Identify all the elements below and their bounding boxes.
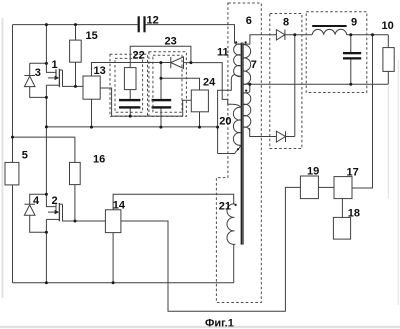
diode D23	[171, 57, 184, 68]
capacitor C22a	[119, 99, 140, 109]
svg-text:22: 22	[133, 49, 145, 61]
wire R16 bottom	[74, 185, 76, 221]
block U18	[333, 217, 350, 239]
svg-text:10: 10	[382, 20, 394, 32]
resistor 5	[5, 162, 19, 185]
wire top rail left of C12	[13, 24, 138, 26]
wire mid bus	[46, 126, 217, 128]
winding 11	[234, 25, 241, 77]
svg-text:19: 19	[307, 165, 319, 177]
wire winding 7 bottom to D8b	[250, 128, 277, 137]
wire C23 stem and branch	[160, 63, 162, 128]
wire D4 anode to source Q2	[30, 216, 47, 233]
wire C23 node to U24 top	[161, 78, 200, 90]
diode D4	[24, 204, 35, 215]
dashed box 22 inner	[115, 58, 143, 112]
wire U13 right to U24 via lower route	[100, 88, 191, 116]
svg-text:16: 16	[93, 154, 105, 166]
winding 7 lower	[243, 93, 251, 131]
svg-text:14: 14	[113, 200, 126, 212]
inductor L9 core bar	[312, 25, 346, 27]
wire rail to R5 R16 branch	[13, 137, 75, 162]
wire source line of Q1 down to mid bus	[45, 85, 47, 127]
wire C9 stems	[350, 35, 352, 84]
wire gate line of Q2 from mid bus	[46, 127, 55, 207]
winding 7 upper	[243, 44, 250, 84]
wire gate line of Q1 from top rail	[46, 25, 55, 73]
wire source Q2 to bottom bus	[45, 219, 47, 282]
phase dots	[235, 41, 248, 206]
wire U17 to U18	[341, 199, 343, 218]
resistor 10	[383, 48, 394, 72]
wire center tap return	[243, 83, 388, 85]
wire winding 11 bottom junction	[218, 74, 235, 153]
resistor 16	[70, 162, 81, 184]
svg-text:1: 1	[52, 59, 58, 71]
svg-text:5: 5	[22, 150, 28, 162]
wire top rail right of C12	[146, 25, 235, 43]
svg-text:4: 4	[33, 195, 40, 207]
wire output riser to U17	[352, 35, 373, 188]
wire U13 bottom to mid bus	[91, 99, 93, 127]
dashed box 23 outer	[149, 52, 187, 117]
resistor 15	[70, 40, 82, 62]
svg-text:13: 13	[94, 65, 106, 77]
wire D23 anode to node	[184, 62, 191, 64]
transistor Q1	[46, 69, 62, 87]
wire U13 top to C22 net	[92, 63, 171, 77]
wire rectifier node riser	[294, 35, 296, 137]
winding 20	[232, 104, 241, 153]
svg-text:17: 17	[347, 167, 359, 179]
svg-text:9: 9	[351, 17, 357, 29]
block U13	[83, 76, 100, 99]
wire D4 cathode to gate Q2	[30, 194, 47, 204]
svg-text:24: 24	[203, 76, 216, 88]
wire R22 top feedback	[130, 46, 191, 67]
wire R15 stems	[75, 25, 77, 87]
svg-text:18: 18	[348, 207, 360, 219]
wire Q1 drain to U13	[63, 70, 84, 86]
wire R10 stems	[387, 35, 389, 84]
wire D3 anode to source line	[30, 87, 47, 98]
block U14	[105, 210, 121, 233]
wire U14 top to winding 21	[113, 194, 234, 210]
wire winding 7 tap link	[246, 84, 250, 92]
svg-text:6: 6	[246, 15, 252, 27]
svg-text:3: 3	[35, 67, 41, 79]
svg-text:23: 23	[165, 35, 177, 47]
wire D8b cathode	[286, 136, 295, 138]
winding 21	[227, 204, 234, 246]
svg-text:11: 11	[217, 47, 229, 59]
wire bottom bus	[13, 282, 234, 284]
wire C22a stems	[129, 90, 131, 117]
capacitor C23	[152, 99, 172, 109]
dashed box 23 inner	[153, 55, 182, 112]
diode D8 upper	[276, 30, 285, 40]
resistor R22	[124, 68, 136, 90]
wire U24 bottom to mid bus	[199, 112, 201, 127]
inductor L9 winding	[312, 29, 346, 34]
capacitor C12	[138, 16, 146, 32]
block U19	[300, 176, 318, 199]
wire D23 output down to winding 20 top	[191, 63, 233, 105]
svg-text:8: 8	[283, 17, 289, 29]
wire winding 21 bottom to bottom bus	[233, 246, 235, 283]
wire Q2 drain to U14	[63, 204, 106, 221]
svg-text:12: 12	[147, 15, 159, 27]
wire from D3 cathode to node gate Q1	[30, 62, 47, 64]
diode D8 lower	[276, 131, 285, 142]
svg-text:21: 21	[219, 200, 231, 212]
dashed box 22 outer	[110, 54, 148, 116]
wire U14 right control loop to U19	[121, 187, 301, 311]
dashed box 6 around transformer	[216, 3, 261, 303]
wire left rail	[12, 25, 14, 283]
wire L9 to output node	[347, 34, 389, 36]
block U24	[191, 90, 208, 112]
wire winding 7 top to D8	[250, 35, 277, 45]
capacitor C9	[343, 52, 361, 60]
svg-text:2: 2	[52, 195, 58, 207]
svg-text:20: 20	[219, 115, 231, 127]
dashed box 8	[270, 14, 302, 149]
diode D3	[24, 63, 35, 86]
block U17	[334, 177, 352, 199]
svg-text:15: 15	[86, 30, 98, 42]
dashed box 9	[306, 12, 367, 93]
wire U14 bottom to bottom bus	[112, 233, 114, 283]
wire D8 cathode to node	[285, 34, 312, 36]
wire winding 20 bottom	[218, 153, 235, 155]
svg-text:7: 7	[251, 59, 257, 71]
wire U19 to U17	[318, 186, 334, 188]
transistor Q2	[46, 203, 62, 221]
transformer core	[241, 43, 243, 245]
